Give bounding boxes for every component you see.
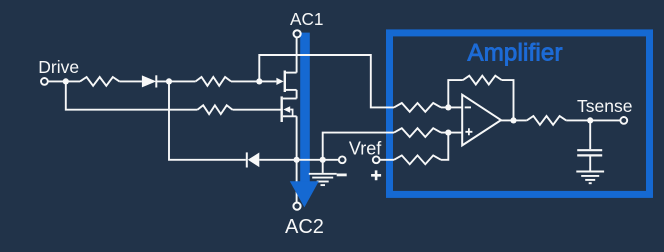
node: Tsense junction (587, 117, 593, 123)
wire Q1 drain to AC1 (296, 37, 298, 72)
terminal Tsense (620, 117, 627, 124)
resistor R1 (80, 77, 119, 86)
node: inverting input junction (445, 104, 451, 110)
node: op-amp output junction (510, 117, 516, 123)
terminal AC1 (294, 30, 301, 37)
wire Q2 source down to AC2 (296, 116, 298, 202)
Vref source plus sign (371, 170, 381, 180)
wire R6 up to plus input node (441, 133, 448, 160)
terminal Drive (41, 78, 48, 85)
wire R2 to Q1 gate (231, 80, 276, 82)
wire R1 to D1 (119, 80, 141, 82)
diode D1 (142, 75, 156, 87)
resistor R8 (output) (527, 116, 566, 125)
node: diode branch junction (166, 78, 172, 84)
wire ground node branch (row3 junction up to + input resistor row) (323, 133, 394, 160)
node: Drive branch junction (63, 78, 69, 84)
svg-text:Amplifier: Amplifier (468, 40, 563, 67)
wire row2 from Drive node down to Q2 gate (66, 81, 198, 109)
capacitor C1 (577, 120, 602, 170)
resistor R2 (196, 77, 231, 86)
svg-text:Tsense: Tsense (577, 96, 632, 116)
svg-text:AC2: AC2 (285, 216, 324, 238)
resistor R3 (197, 105, 232, 114)
node: AC2 rail junction (294, 157, 300, 163)
wire row3 from diode node down to D2 (169, 81, 246, 159)
resistor R6 (from Vref) (394, 155, 441, 164)
node: Q1 gate junction (256, 78, 262, 84)
wire Q1 source to Q2 drain (296, 90, 298, 99)
wire Vref plus terminal to Rvref (380, 159, 394, 161)
node: non-inverting input junction (445, 130, 451, 136)
wire D1 to R2 (156, 80, 195, 82)
current arrow head (290, 181, 319, 207)
svg-text:AC1: AC1 (290, 9, 323, 29)
ground GND2 (below C1) (576, 172, 604, 184)
terminal AC2 (293, 203, 300, 210)
amplifier block border (390, 33, 650, 195)
op-amp U1 (462, 95, 501, 146)
Vref source minus sign (337, 173, 347, 176)
current arrow shaft (AC1 to AC2) (300, 33, 310, 183)
terminal Vref plus (373, 156, 380, 163)
transistor Q2 (FET with body arrow, bottom) (282, 96, 297, 122)
wire gate node up and over to amplifier input (259, 55, 394, 107)
transistor Q1 (N-FET, top) (276, 71, 296, 93)
ground GND1 (at AC2 rail) (309, 160, 337, 185)
wire R4 to op-amp minus (441, 106, 462, 108)
terminal Vref minus (339, 156, 346, 163)
wire D2 to Vref minus terminal (259, 159, 338, 161)
wire row1 Drive to R1 (48, 80, 80, 82)
wire op-amp output (501, 119, 527, 121)
wire R5 to op-amp plus (441, 132, 462, 134)
resistor R4 (inverting input) (394, 103, 441, 112)
diode D2 (247, 152, 259, 167)
feedback loop wire (448, 80, 463, 107)
resistor R5 (non-inverting lower leg) (394, 128, 441, 137)
resistor R7 (feedback) (463, 76, 502, 85)
wire R3 to Q2 gate (233, 109, 282, 111)
wire feedback to output node (502, 80, 514, 120)
node: ground junction (320, 157, 326, 163)
svg-text:Vref: Vref (349, 138, 382, 158)
wire R8 to Tsense (566, 119, 620, 121)
svg-text:Drive: Drive (38, 57, 79, 77)
